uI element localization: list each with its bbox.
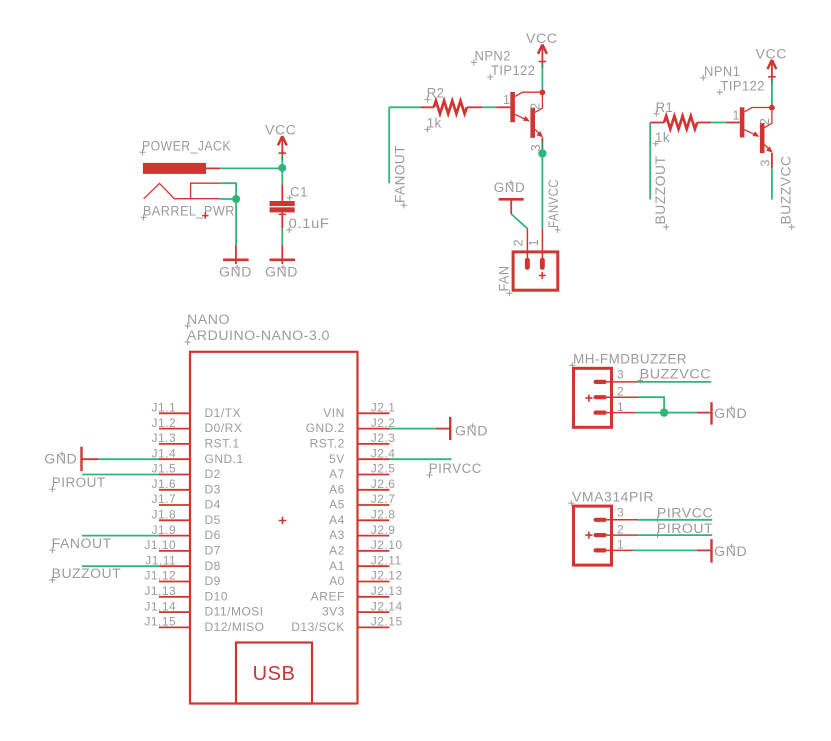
connector FAN pads [525, 258, 545, 270]
wire buzzer pin1 to GND [636, 412, 697, 414]
svg-text:1: 1 [617, 400, 624, 414]
svg-text:J2.8: J2.8 [371, 508, 396, 522]
wire net BUZZOUT vertical [649, 123, 651, 200]
net label PIRVCC (at J2.4) [427, 461, 482, 478]
connector FAN body [513, 252, 558, 290]
net label PIRVCC (at PIR) [655, 506, 714, 523]
emitter of Q-b with arrow [535, 129, 543, 137]
wire POWER_JACK to VCC node [220, 167, 282, 169]
pin number 2 (FAN) [512, 239, 526, 246]
svg-text:D7: D7 [205, 544, 221, 558]
pad pin 3 (buzzer) [594, 380, 607, 384]
svg-text:D4: D4 [205, 498, 221, 512]
capacitor C1 label [287, 184, 308, 201]
connector MH-FMDBUZZER body [574, 368, 612, 427]
pin 3 label [529, 144, 543, 151]
svg-text:A0: A0 [329, 574, 345, 588]
pin number 1 (buzzer) [607, 400, 636, 414]
svg-text:2: 2 [617, 384, 624, 398]
svg-text:J2.9: J2.9 [371, 523, 396, 537]
wire PIROUT from PIR pin2 [638, 534, 713, 536]
svg-text:2: 2 [529, 102, 543, 109]
svg-text:A6: A6 [329, 482, 345, 496]
pin J1.15 [144, 615, 264, 634]
pin J2.13 [311, 584, 403, 603]
svg-text:J1.1: J1.1 [152, 401, 177, 415]
ground label GND (buzzer) [714, 406, 747, 421]
svg-text:J1.4: J1.4 [152, 446, 177, 460]
svg-text:NPN1: NPN1 [704, 64, 740, 79]
svg-text:J2.7: J2.7 [371, 492, 396, 506]
pin J1.8 [152, 508, 221, 527]
svg-text:RST.1: RST.1 [205, 437, 240, 451]
transistor NPN2 label [471, 49, 511, 66]
wire net FANOUT vertical [388, 107, 390, 183]
wire R1 to NPN1 base [711, 122, 726, 124]
svg-text:BUZZVCC: BUZZVCC [778, 156, 793, 225]
wire C1 to GND [281, 229, 283, 246]
pad pin 2 (PIR) [594, 533, 607, 537]
pin J1.11 [145, 553, 221, 572]
pin J2.9 [329, 523, 395, 542]
pin J2.12 [329, 569, 403, 588]
pin 3 label [758, 159, 772, 166]
pad pin 1 (buzzer) [594, 411, 607, 415]
IC NANO label [185, 312, 230, 329]
pin J2.6 [329, 477, 395, 497]
svg-text:1k: 1k [655, 130, 670, 145]
value label TIP122 (NPN2) [487, 63, 535, 80]
wire PIRVCC from PIR pin3 [638, 519, 713, 521]
svg-text:J1.3: J1.3 [152, 431, 177, 445]
svg-text:D5: D5 [205, 513, 221, 527]
supply symbol VCC [538, 45, 547, 64]
pin J1.6 [152, 477, 221, 497]
net label VCC [526, 31, 558, 46]
emitter of Q-a with arrow [744, 130, 759, 137]
wire buzzer pin2 to gnd node [638, 397, 665, 412]
svg-text:J2.1: J2.1 [371, 401, 396, 415]
pin J1.5 [152, 462, 221, 481]
svg-text:D11/MOSI: D11/MOSI [205, 605, 264, 619]
wire net PIROUT to J1.5 [82, 474, 159, 476]
svg-text:D10: D10 [205, 589, 229, 603]
wire net FANOUT horizontal [389, 106, 420, 108]
svg-text:J1.2: J1.2 [152, 416, 177, 430]
net label VCC [265, 123, 297, 138]
label USB [253, 663, 296, 685]
svg-text:A4: A4 [329, 513, 345, 527]
value label 0.1uF [286, 216, 329, 233]
collector lines [744, 108, 772, 128]
pin number 2 (PIR) [607, 522, 638, 536]
wire PIR pin1 to GND [633, 549, 696, 551]
collector lines [515, 92, 543, 112]
origin cross PIR + [585, 532, 592, 539]
svg-text:J1.8: J1.8 [152, 508, 177, 522]
pin J1.10 [144, 538, 221, 557]
svg-text:FAN: FAN [497, 266, 512, 292]
label BARREL_PWR [141, 204, 235, 221]
transistor base bar Q-b [760, 123, 765, 153]
ground symbol GND (J1.4, rotated) [82, 447, 99, 472]
pin J1.2 [152, 416, 243, 435]
wire NPN2 emitter to FAN pin1 [541, 138, 543, 229]
ground label GND (PIR) [714, 544, 747, 559]
svg-text:D9: D9 [205, 574, 221, 588]
barrel symbol outline [191, 183, 221, 199]
svg-text:A3: A3 [329, 528, 345, 542]
svg-text:J2.13: J2.13 [371, 584, 403, 598]
transistor base bar Q-a [510, 92, 515, 122]
net label BUZZVCC (at buzzer) [637, 367, 711, 384]
svg-text:5V: 5V [329, 452, 345, 466]
net label VCC [756, 47, 788, 62]
pin number 3 (buzzer) [607, 368, 638, 382]
junction node NPN1 collector [769, 105, 775, 111]
svg-text:J1.12: J1.12 [144, 569, 176, 583]
wire net PIRVCC to J2.4 [389, 458, 451, 460]
resistor R2 label [424, 86, 444, 103]
supply symbol VCC [768, 60, 777, 79]
connector USB box [236, 643, 312, 704]
svg-text:J1.14: J1.14 [144, 599, 176, 613]
svg-text:TIP122: TIP122 [491, 63, 535, 78]
wire R2 to NPN2 base [482, 106, 496, 108]
wire barrel to gnd node [220, 183, 236, 199]
svg-text:J1.7: J1.7 [152, 492, 177, 506]
net label FANVCC (vertical) [546, 179, 561, 233]
net label BUZZOUT (vertical) [653, 156, 669, 231]
svg-text:PIROUT: PIROUT [52, 475, 106, 490]
svg-text:J2.14: J2.14 [371, 599, 403, 613]
junction node FANVCC [538, 149, 546, 157]
svg-text:FANVCC: FANVCC [546, 179, 561, 228]
svg-text:PIRVCC: PIRVCC [657, 506, 713, 521]
svg-text:TIP122: TIP122 [721, 78, 765, 93]
origin cross barrel + [202, 212, 208, 218]
svg-text:2: 2 [758, 118, 772, 125]
wire VCC to NPN1 collector [771, 79, 773, 108]
net label PIROUT (at PIR) [655, 521, 714, 538]
svg-text:J2.2: J2.2 [371, 416, 396, 430]
pin J1.3 [152, 431, 240, 450]
value label 1k (R2) [424, 116, 441, 133]
pin 1 label [503, 93, 510, 107]
svg-text:J1.6: J1.6 [152, 477, 177, 491]
svg-text:NPN2: NPN2 [475, 49, 511, 64]
ground symbol GND [270, 246, 296, 265]
pin J1.14 [144, 599, 263, 618]
pin J1.1 [152, 401, 242, 420]
svg-text:1: 1 [617, 538, 624, 552]
connector MH-FMDBUZZER label [569, 351, 687, 368]
ground label GND [219, 265, 252, 280]
svg-text:D1/TX: D1/TX [205, 406, 242, 420]
pin J2.3 [310, 431, 396, 450]
svg-text:J2.11: J2.11 [371, 553, 402, 567]
net label PIROUT [49, 475, 105, 492]
transistor NPN1 label [700, 64, 740, 81]
pad pin 1 (PIR) [594, 548, 607, 552]
svg-text:3: 3 [617, 368, 624, 382]
svg-text:NANO: NANO [187, 312, 230, 327]
svg-text:BARREL_PWR: BARREL_PWR [143, 204, 235, 219]
junction node buzzer gnd [660, 408, 668, 416]
ground symbol GND (PIR, rotated) [697, 539, 712, 563]
resistor R2 [421, 101, 483, 114]
pin NPN2 base [496, 106, 510, 108]
svg-text:ARDUINO-NANO-3.0: ARDUINO-NANO-3.0 [187, 328, 330, 343]
wire barrel node to GND [235, 199, 237, 245]
svg-text:BUZZVCC: BUZZVCC [640, 367, 712, 382]
pin J1.9 [152, 523, 221, 542]
capacitor C1 [270, 185, 295, 229]
svg-text:A2: A2 [329, 544, 345, 558]
ground label GND (J2.2) [455, 423, 488, 438]
svg-text:A7: A7 [329, 467, 345, 481]
origin cross buzzer + [585, 395, 592, 402]
barrel symbol BARREL_PWR zigzag [144, 183, 191, 198]
wire GND to J2.2 [389, 428, 435, 430]
wire NPN1 emitter to BUZZVCC [771, 153, 773, 200]
svg-text:PIRVCC: PIRVCC [429, 461, 482, 476]
svg-text:J2.15: J2.15 [371, 615, 403, 629]
pin J2.10 [329, 538, 403, 557]
svg-text:VMA314PIR: VMA314PIR [572, 489, 654, 504]
svg-text:J2.4: J2.4 [371, 446, 396, 460]
svg-text:J1.10: J1.10 [144, 538, 176, 552]
svg-text:J1.15: J1.15 [144, 615, 176, 629]
svg-text:3: 3 [617, 506, 624, 520]
svg-text:D8: D8 [205, 559, 221, 573]
resistor R1 label [653, 100, 673, 117]
svg-text:GND.1: GND.1 [205, 452, 244, 466]
pin FAN.2 [526, 229, 528, 258]
connector label FAN (vertical) [497, 266, 513, 297]
pin J2.4 [329, 446, 395, 465]
pin J2.2 [306, 416, 396, 435]
connector POWER_JACK label [140, 139, 232, 156]
svg-text:A5: A5 [329, 498, 345, 512]
pin J2.7 [329, 492, 395, 511]
svg-text:0.1uF: 0.1uF [289, 216, 330, 231]
svg-text:1k: 1k [427, 116, 442, 131]
svg-text:AREF: AREF [311, 589, 345, 603]
svg-text:1: 1 [733, 108, 740, 122]
pin 2 label [758, 118, 772, 125]
wire GND to FAN pin2 (diagonal) [511, 214, 527, 229]
pin J2.5 [329, 462, 395, 481]
connector J power jack body [143, 163, 206, 174]
svg-text:J2.3: J2.3 [371, 431, 396, 445]
pin FAN.1 [541, 229, 543, 258]
IC origin cross + [279, 517, 287, 525]
svg-text:3V3: 3V3 [322, 605, 345, 619]
pin J2.11 [329, 553, 402, 572]
svg-text:J2.10: J2.10 [371, 538, 403, 552]
ground label GND (fan) [494, 180, 526, 195]
svg-text:USB: USB [253, 663, 296, 685]
pin 1 label [733, 108, 740, 122]
wire net BUZZOUT to J1.11 [82, 565, 160, 567]
pin number 3 (PIR) [607, 506, 638, 520]
pin J2.8 [329, 508, 395, 527]
resistor R1 [650, 116, 711, 129]
svg-text:MH-FMDBUZZER: MH-FMDBUZZER [573, 351, 687, 366]
ground label GND (J1.4) [44, 451, 77, 466]
value label TIP122 (NPN1) [717, 78, 765, 95]
power jack pin stub [206, 167, 220, 169]
pad pin 2 (buzzer) [594, 395, 607, 399]
pin J2.1 [323, 401, 395, 420]
ground label GND [265, 265, 298, 280]
svg-text:J2.12: J2.12 [371, 569, 403, 583]
svg-text:D3: D3 [205, 482, 221, 496]
junction node barrel gnd [232, 195, 240, 203]
wire net FANOUT to J1.9 [82, 535, 159, 537]
pin J1.12 [144, 569, 221, 588]
svg-text:2: 2 [512, 239, 526, 246]
ground symbol GND (J2.2, rotated) [435, 417, 450, 440]
svg-text:D13/SCK: D13/SCK [291, 620, 345, 634]
svg-text:3: 3 [758, 159, 772, 166]
transistor base bar Q-a [740, 107, 745, 137]
pin number 1 (PIR) [607, 538, 634, 552]
svg-text:A1: A1 [329, 559, 345, 573]
svg-text:VCC: VCC [265, 123, 297, 138]
svg-text:1: 1 [527, 239, 541, 246]
pad pin 3 (PIR) [594, 518, 607, 522]
wire VCC node down to C1 [281, 168, 283, 185]
IC U1 ARDUINO-NANO body [190, 352, 358, 704]
value label ARDUINO-NANO-3.0 [185, 328, 330, 345]
wire VCC to NPN2 collector [541, 64, 543, 93]
svg-text:BUZZOUT: BUZZOUT [653, 156, 668, 225]
svg-text:J2.5: J2.5 [371, 462, 396, 476]
supply symbol VCC [278, 136, 287, 155]
svg-text:C1: C1 [290, 184, 308, 199]
ground symbol GND (buzzer, rotated) [697, 402, 712, 425]
ground symbol GND [223, 245, 249, 264]
svg-text:D2: D2 [205, 467, 221, 481]
pin number 1 (FAN) [527, 239, 541, 246]
svg-text:D6: D6 [205, 528, 221, 542]
svg-text:J2.6: J2.6 [371, 477, 396, 491]
svg-text:R1: R1 [656, 100, 674, 115]
svg-text:POWER_JACK: POWER_JACK [142, 139, 231, 154]
net label FANOUT (left) [49, 536, 111, 553]
ground symbol GND (fan) [499, 199, 524, 214]
net label FANOUT (vertical) [392, 145, 407, 208]
svg-text:VCC: VCC [526, 31, 558, 46]
svg-text:RST.2: RST.2 [310, 437, 345, 451]
pin J1.13 [144, 584, 228, 603]
pin J1.7 [152, 492, 221, 511]
origin cross FAN + [539, 272, 546, 279]
junction node VCC/power [278, 164, 286, 172]
emitter of Q-a with arrow [515, 114, 530, 121]
wire VCC stub [281, 155, 283, 168]
svg-text:PIROUT: PIROUT [657, 521, 713, 536]
wire BUZZVCC from buzzer pin3 [638, 381, 712, 383]
net label BUZZVCC (vertical) [778, 156, 794, 231]
connector VMA314PIR body [574, 506, 612, 565]
svg-text:BUZZOUT: BUZZOUT [52, 566, 122, 581]
pin J1.4 [152, 446, 244, 465]
svg-text:2: 2 [617, 522, 624, 536]
svg-text:J1.13: J1.13 [144, 584, 176, 598]
svg-text:VIN: VIN [323, 406, 345, 420]
svg-text:VCC: VCC [756, 47, 788, 62]
pin 2 label [529, 102, 543, 109]
svg-text:1: 1 [503, 93, 510, 107]
connector VMA314PIR label [568, 489, 654, 506]
pin number 2 (buzzer) [607, 384, 638, 398]
pin J2.15 [291, 615, 402, 634]
svg-text:D12/MISO: D12/MISO [205, 620, 265, 634]
net label BUZZOUT (left) [49, 566, 121, 583]
svg-text:GND.2: GND.2 [306, 421, 345, 435]
pin NPN1 base [726, 122, 740, 124]
value label 1k (R1) [653, 130, 670, 147]
emitter of Q-b with arrow [765, 145, 773, 153]
transistor base bar Q-b [530, 108, 535, 138]
svg-text:FANOUT: FANOUT [392, 145, 407, 203]
pin J2.14 [322, 599, 403, 618]
svg-text:FANOUT: FANOUT [52, 536, 112, 551]
wire GND to J1.4 [98, 458, 159, 460]
svg-text:D0/RX: D0/RX [205, 421, 243, 435]
junction node NPN2 collector [540, 90, 546, 96]
